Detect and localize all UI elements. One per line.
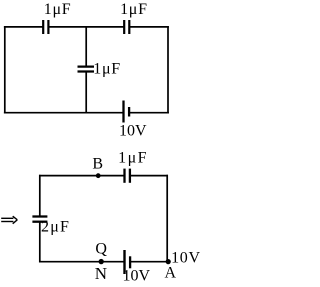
svg-text:1μF: 1μF xyxy=(118,149,148,166)
wire top edge middle segment (top circuit) xyxy=(48,26,124,28)
implication arrow ⇒ xyxy=(1,216,17,224)
wire top edge left segment (bottom circuit) xyxy=(39,175,125,177)
wire middle branch lower segment (top circuit) xyxy=(85,72,87,113)
battery B2 (bottom circuit) xyxy=(125,250,131,274)
wire bottom edge right segment (top circuit) xyxy=(129,112,169,114)
svg-text:B: B xyxy=(92,156,103,173)
node B dot xyxy=(96,173,101,178)
svg-text:N: N xyxy=(95,264,108,283)
wire top edge right segment (bottom circuit) xyxy=(130,175,168,177)
wire top edge right segment (top circuit) xyxy=(129,26,169,28)
battery B1 (top circuit) xyxy=(124,101,130,123)
wire left edge lower segment (bottom circuit) xyxy=(39,222,41,263)
svg-text:10V: 10V xyxy=(171,250,201,267)
svg-text:10V: 10V xyxy=(119,122,147,139)
capacitor C2 plates xyxy=(124,20,129,34)
wire bottom edge left segment (top circuit) xyxy=(4,112,124,114)
capacitor C4 plates (bottom circuit top edge) xyxy=(125,169,130,183)
wire left edge (top circuit) xyxy=(4,26,6,113)
svg-text:1μF: 1μF xyxy=(93,60,121,77)
svg-text:10V: 10V xyxy=(123,268,151,285)
svg-text:1μF: 1μF xyxy=(44,1,72,18)
capacitor C1 plates xyxy=(43,20,48,34)
wire right edge (bottom circuit) xyxy=(166,175,168,262)
svg-text:Q: Q xyxy=(95,241,107,258)
wire bottom edge right segment (bottom circuit) xyxy=(130,261,167,263)
wire right edge (top circuit) xyxy=(167,26,169,113)
capacitor C3 plates (middle branch) xyxy=(78,67,95,72)
svg-text:A: A xyxy=(165,265,177,282)
wire middle branch upper segment (top circuit) xyxy=(85,27,87,67)
node Q/N dot xyxy=(99,259,104,264)
capacitor C5 plates (2μF left edge) xyxy=(32,217,47,222)
wire left edge upper segment (bottom circuit) xyxy=(39,175,41,217)
svg-text:2μF: 2μF xyxy=(41,219,70,236)
wire top edge left segment (top circuit) xyxy=(4,26,43,28)
node A dot xyxy=(166,259,171,264)
wire bottom edge left segment (bottom circuit) xyxy=(39,261,125,263)
svg-text:1μF: 1μF xyxy=(120,1,148,18)
